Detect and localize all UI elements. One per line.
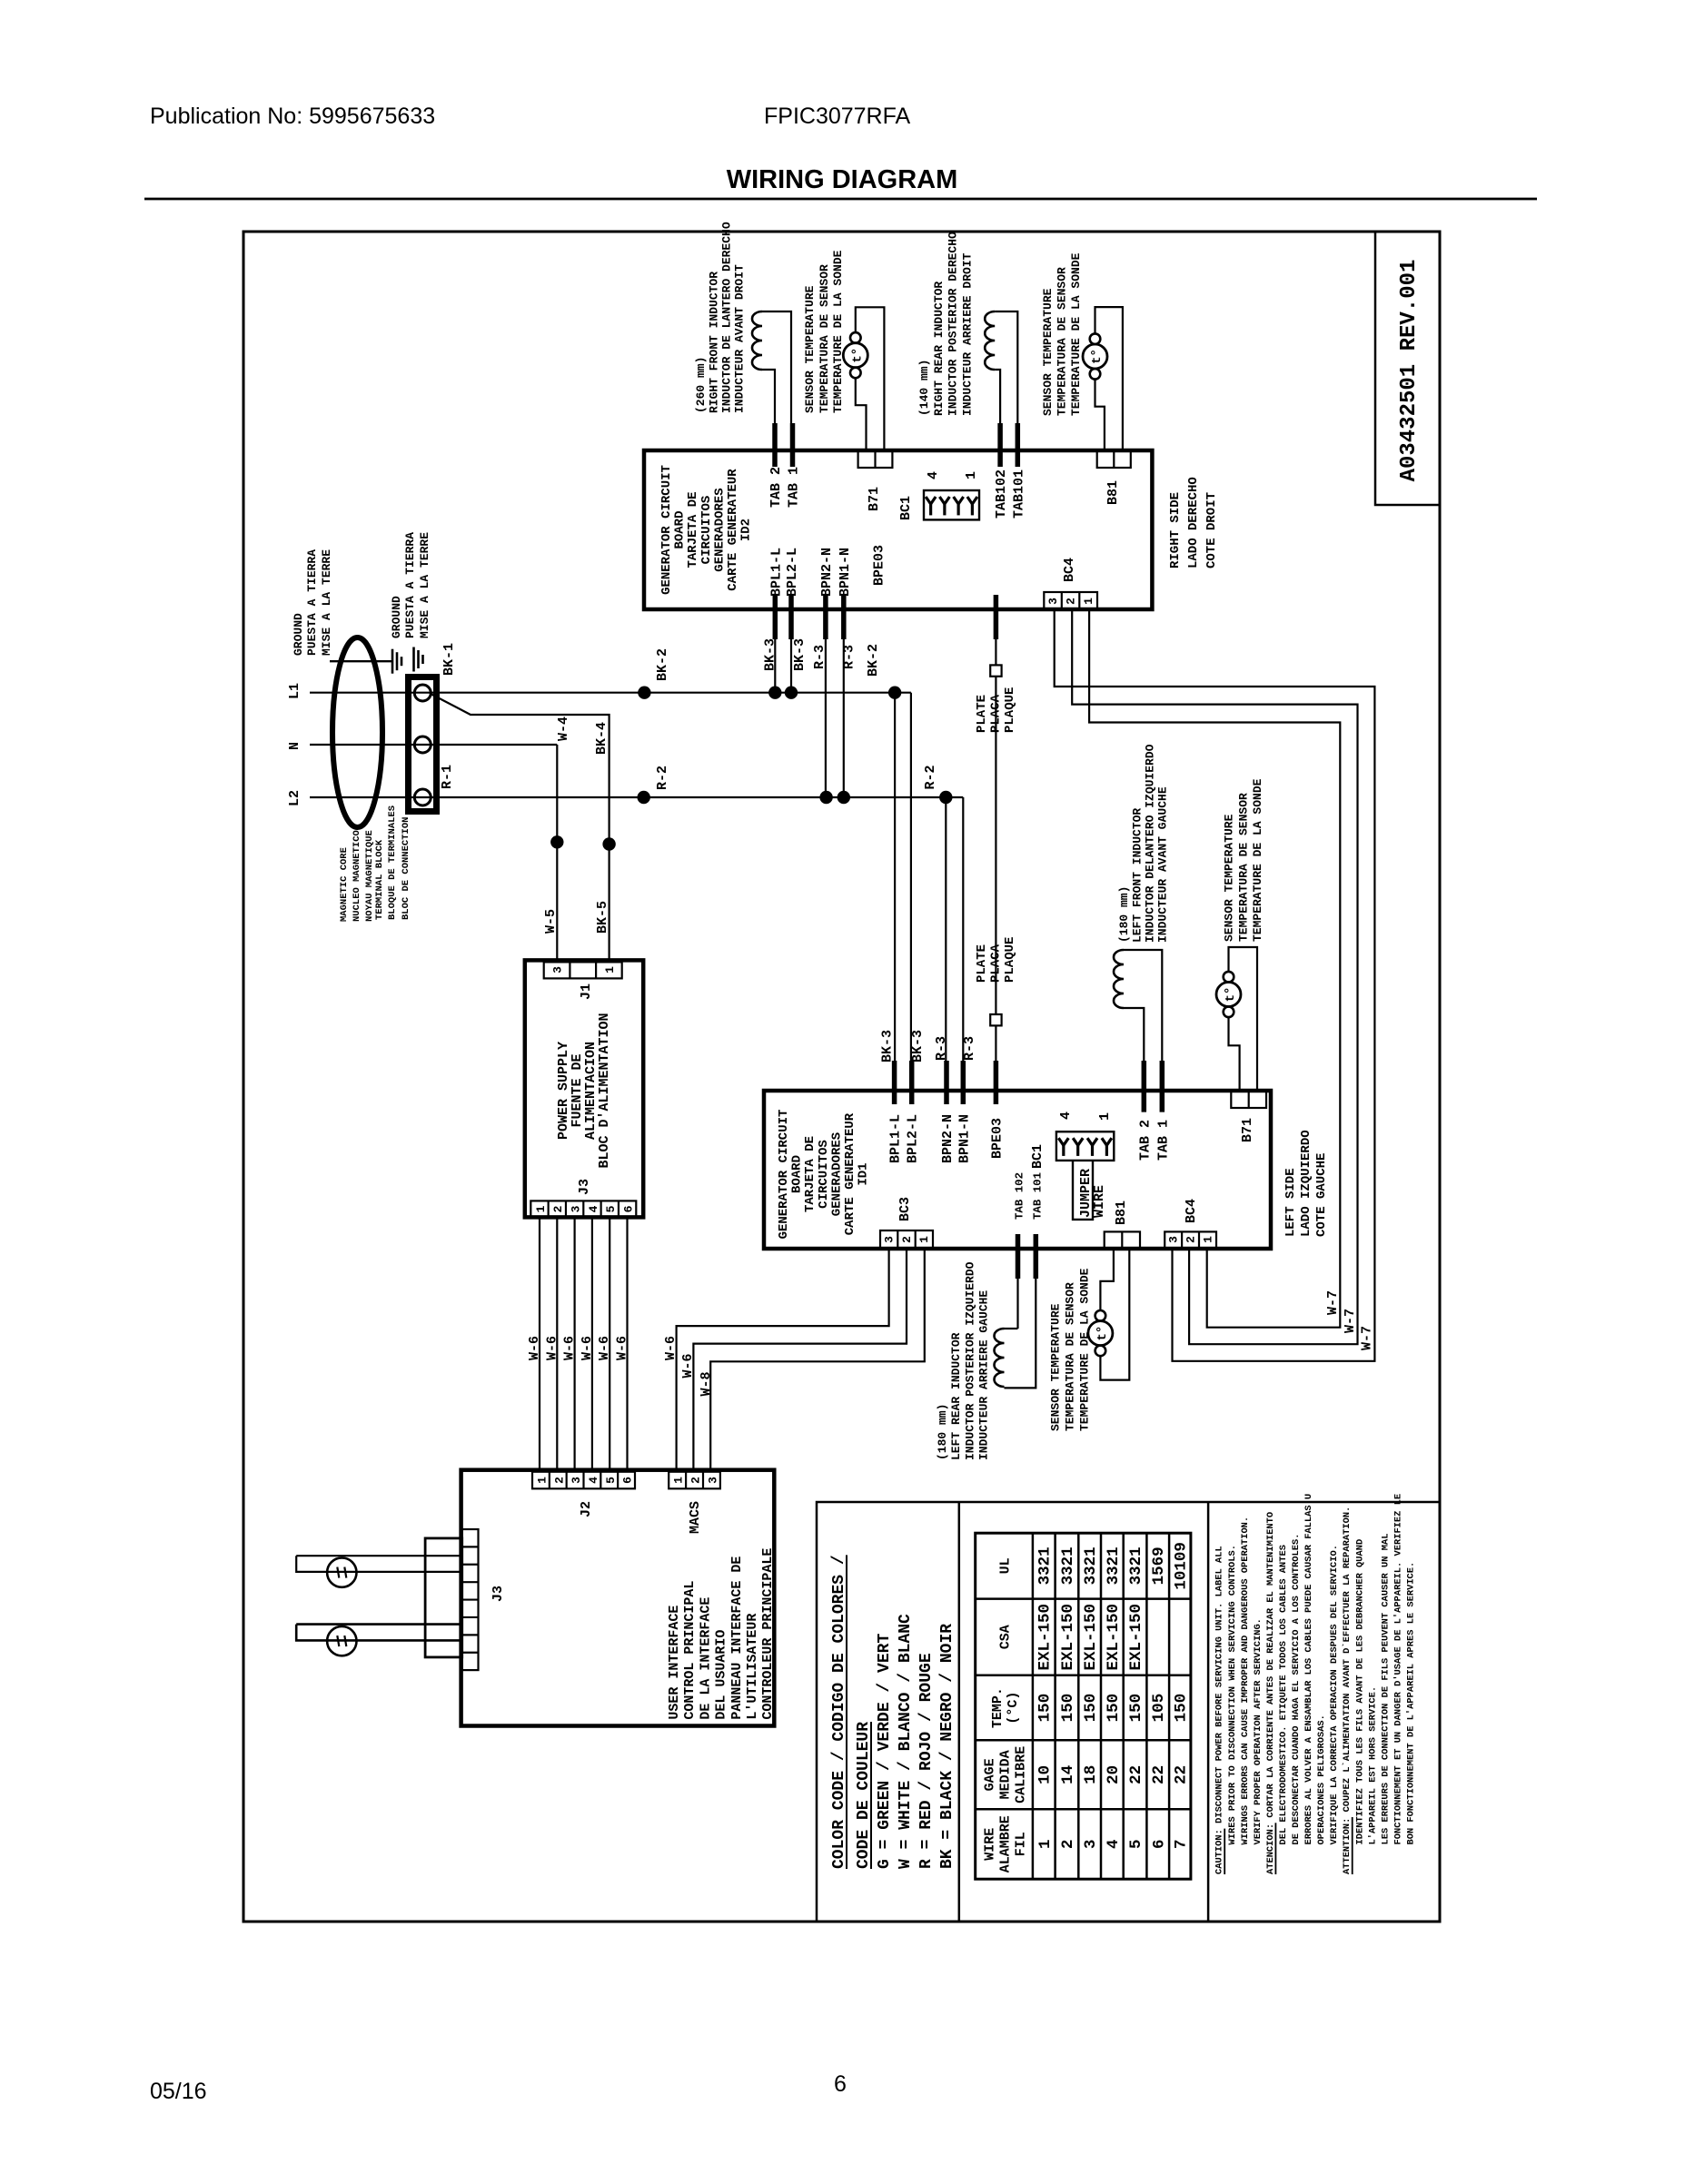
- svg-text:BK-3: BK-3: [762, 638, 778, 671]
- svg-text:INDUCTOR DELANTERO IZQUIERDO: INDUCTOR DELANTERO IZQUIERDO: [1144, 744, 1157, 943]
- svg-text:MACS: MACS: [688, 1501, 703, 1534]
- svg-text:05/16: 05/16: [150, 2079, 207, 2104]
- svg-text:FPIC3077RFA: FPIC3077RFA: [764, 104, 911, 129]
- svg-text:ID2: ID2: [739, 519, 754, 541]
- svg-text:1: 1: [917, 1236, 931, 1243]
- svg-text:3: 3: [1046, 598, 1060, 605]
- svg-text:3321: 3321: [1127, 1547, 1145, 1585]
- svg-text:WIRING DIAGRAM: WIRING DIAGRAM: [727, 165, 958, 194]
- svg-text:BPL1-L: BPL1-L: [888, 1114, 904, 1163]
- svg-text:W-6: W-6: [663, 1336, 679, 1360]
- svg-text:BPN2-N: BPN2-N: [819, 548, 835, 597]
- svg-text:5: 5: [604, 1205, 618, 1212]
- svg-text:3: 3: [569, 1205, 582, 1212]
- svg-text:RIGHT SIDE: RIGHT SIDE: [1168, 492, 1183, 568]
- svg-text:MISE A LA TERRE: MISE A LA TERRE: [418, 532, 431, 638]
- svg-text:4: 4: [587, 1205, 600, 1212]
- svg-text:W-7: W-7: [1325, 1290, 1341, 1315]
- svg-text:W-6: W-6: [580, 1336, 595, 1360]
- svg-text:CONTROLEUR PRINCIPALE: CONTROLEUR PRINCIPALE: [760, 1548, 776, 1720]
- svg-text:TAB 2: TAB 2: [1137, 1120, 1153, 1161]
- svg-text:PLAQUE: PLAQUE: [1003, 687, 1017, 733]
- svg-text:CARTE GENERATEUR: CARTE GENERATEUR: [726, 469, 740, 591]
- svg-text:3: 3: [1167, 1236, 1181, 1243]
- svg-text:6: 6: [834, 2071, 847, 2097]
- svg-text:(180 mm): (180 mm): [936, 1404, 949, 1460]
- svg-text:FONCTIONNEMENT ET UN DANGER D': FONCTIONNEMENT ET UN DANGER D'USAGE DE L…: [1393, 1494, 1403, 1845]
- svg-text:BPN1-N: BPN1-N: [838, 548, 853, 597]
- svg-text:DE LA INTERFACE: DE LA INTERFACE: [698, 1597, 713, 1720]
- svg-text:TERMINAL BLOCK: TERMINAL BLOCK: [374, 839, 385, 920]
- svg-text:BK-4: BK-4: [594, 722, 610, 755]
- svg-text:CIRCUITOS: CIRCUITOS: [817, 1140, 831, 1209]
- svg-text:4: 4: [926, 471, 941, 479]
- svg-text:L2: L2: [287, 790, 302, 806]
- svg-text:BPN2-N: BPN2-N: [940, 1114, 956, 1163]
- svg-text:(180 mm): (180 mm): [1117, 886, 1131, 943]
- svg-text:BK-1: BK-1: [441, 643, 457, 676]
- svg-text:L'UTILISATEUR: L'UTILISATEUR: [745, 1614, 760, 1720]
- svg-text:BON FONCTIONNEMENT DE L'APPARE: BON FONCTIONNEMENT DE L'APPAREIL APRES L…: [1405, 1562, 1416, 1845]
- svg-text:BOARD: BOARD: [790, 1155, 805, 1193]
- svg-text:G = GREEN / VERDE / VERT: G = GREEN / VERDE / VERT: [876, 1634, 894, 1869]
- svg-text:W-6: W-6: [680, 1353, 696, 1378]
- svg-text:3: 3: [551, 966, 565, 973]
- svg-text:VERIFY PROPER OPERATION AFTER: VERIFY PROPER OPERATION AFTER SERVICING.: [1253, 1618, 1264, 1844]
- svg-text:FIL: FIL: [1013, 1832, 1028, 1856]
- svg-text:PLAQUE: PLAQUE: [1003, 937, 1017, 983]
- svg-text:1: 1: [1082, 598, 1095, 605]
- svg-text:105: 105: [1150, 1694, 1168, 1723]
- svg-text:BPL2-L: BPL2-L: [906, 1114, 921, 1163]
- svg-text:22: 22: [1150, 1765, 1168, 1784]
- svg-text:TEMPERATURA DE SENSOR: TEMPERATURA DE SENSOR: [1237, 793, 1251, 942]
- svg-text:R-3: R-3: [842, 645, 857, 669]
- svg-text:BLOQUE DE TERMINALES: BLOQUE DE TERMINALES: [387, 805, 398, 920]
- svg-text:EXL-150: EXL-150: [1082, 1604, 1100, 1671]
- svg-text:150: 150: [1127, 1694, 1145, 1723]
- svg-text:INDUCTEUR AVANT GAUCHE: INDUCTEUR AVANT GAUCHE: [1156, 786, 1170, 943]
- svg-text:3: 3: [883, 1236, 897, 1243]
- svg-text:INDUCTEUR ARRIERE GAUCHE: INDUCTEUR ARRIERE GAUCHE: [977, 1290, 991, 1460]
- svg-text:BK-3: BK-3: [910, 1030, 926, 1062]
- svg-text:20: 20: [1105, 1765, 1123, 1784]
- svg-text:J2: J2: [579, 1501, 594, 1517]
- svg-text:R-2: R-2: [923, 765, 938, 789]
- svg-text:BPL1-L: BPL1-L: [768, 548, 784, 597]
- svg-text:BPN1-N: BPN1-N: [956, 1114, 972, 1163]
- svg-text:BPE03: BPE03: [872, 545, 887, 586]
- svg-text:BK-2: BK-2: [655, 648, 670, 681]
- svg-text:t°: t°: [850, 348, 865, 363]
- svg-text:R-3: R-3: [962, 1036, 977, 1061]
- svg-text:CSA: CSA: [997, 1625, 1013, 1649]
- svg-text:B81: B81: [1114, 1201, 1129, 1225]
- svg-text:ALAMBRE: ALAMBRE: [997, 1815, 1013, 1873]
- svg-text:10: 10: [1036, 1765, 1055, 1784]
- svg-text:ATTENTION: COUPEZ L`ALIMENTATI: ATTENTION: COUPEZ L`ALIMENTATION AVANT D…: [1342, 1507, 1353, 1874]
- svg-text:EXL-150: EXL-150: [1036, 1604, 1055, 1671]
- svg-text:PLACA: PLACA: [989, 694, 1004, 733]
- svg-text:2: 2: [552, 1477, 566, 1484]
- svg-text:TEMP.: TEMP.: [990, 1687, 1006, 1728]
- svg-text:RIGHT REAR INDUCTOR: RIGHT REAR INDUCTOR: [932, 282, 946, 416]
- svg-text:BC4: BC4: [1184, 1199, 1199, 1223]
- svg-text:INDUCTOR POSTERIOR IZQUIERDO: INDUCTOR POSTERIOR IZQUIERDO: [963, 1261, 976, 1460]
- svg-text:22: 22: [1127, 1765, 1145, 1784]
- svg-text:BK-2: BK-2: [866, 644, 881, 677]
- svg-text:1: 1: [1036, 1839, 1055, 1849]
- svg-text:A03432501 REV.001: A03432501 REV.001: [1397, 260, 1422, 482]
- svg-text:W-6: W-6: [527, 1336, 542, 1360]
- svg-text:R-2: R-2: [655, 766, 670, 790]
- svg-text:(140 mm): (140 mm): [917, 360, 931, 416]
- svg-text:PUESTA A TIERRA: PUESTA A TIERRA: [305, 549, 319, 656]
- svg-text:2: 2: [1184, 1236, 1198, 1243]
- svg-text:UL: UL: [997, 1557, 1013, 1574]
- svg-text:W-6: W-6: [544, 1336, 560, 1360]
- svg-text:CONTROL PRINCIPAL: CONTROL PRINCIPAL: [682, 1581, 698, 1720]
- svg-text:t°: t°: [1224, 987, 1238, 1003]
- svg-text:SENSOR TEMPERATURE: SENSOR TEMPERATURE: [1049, 1303, 1063, 1431]
- svg-text:2: 2: [689, 1477, 703, 1484]
- svg-text:WIRE: WIRE: [1092, 1185, 1107, 1218]
- svg-text:6: 6: [621, 1477, 635, 1484]
- svg-text:SENSOR TEMPERATURE: SENSOR TEMPERATURE: [1041, 288, 1055, 416]
- svg-text:TEMPERATURA DE SENSOR: TEMPERATURA DE SENSOR: [1056, 267, 1069, 416]
- svg-text:LEFT REAR INDUCTOR: LEFT REAR INDUCTOR: [949, 1332, 963, 1460]
- svg-text:NUCLEO MAGNETICO: NUCLEO MAGNETICO: [352, 830, 362, 922]
- svg-text:TEMPERATURE DE LA SONDE: TEMPERATURE DE LA SONDE: [1078, 1268, 1092, 1431]
- svg-text:INDUCTOR DE LANTERO DERECHO: INDUCTOR DE LANTERO DERECHO: [719, 222, 733, 413]
- svg-text:18: 18: [1082, 1765, 1100, 1784]
- svg-text:WIRE: WIRE: [982, 1828, 997, 1861]
- svg-text:VERIFIQUE LA CORRECTA OPERACIO: VERIFIQUE LA CORRECTA OPERACION DESPUES …: [1329, 1545, 1340, 1844]
- svg-text:R-3: R-3: [934, 1036, 949, 1061]
- svg-text:TAB 1: TAB 1: [1155, 1120, 1171, 1161]
- svg-text:3321: 3321: [1105, 1547, 1123, 1585]
- svg-text:PUESTA A TIERRA: PUESTA A TIERRA: [403, 532, 417, 638]
- svg-text:L1: L1: [287, 683, 302, 699]
- svg-text:R = RED / ROJO / ROUGE: R = RED / ROJO / ROUGE: [917, 1653, 936, 1869]
- svg-text:CALIBRE: CALIBRE: [1013, 1746, 1028, 1804]
- svg-text:TEMPERATURA DE SENSOR: TEMPERATURA DE SENSOR: [1064, 1282, 1077, 1431]
- svg-text:10109: 10109: [1173, 1542, 1191, 1590]
- svg-text:5: 5: [604, 1477, 618, 1484]
- svg-text:GAGE: GAGE: [982, 1758, 997, 1791]
- svg-text:MEDIDA: MEDIDA: [997, 1750, 1013, 1799]
- svg-text:LES ERREURS DE CONNECTION DE F: LES ERREURS DE CONNECTION DE FILS PEUVEN…: [1380, 1534, 1391, 1845]
- svg-text:CIRCUITOS: CIRCUITOS: [699, 496, 714, 565]
- svg-text:(260 mm): (260 mm): [694, 357, 708, 413]
- svg-text:W-6: W-6: [597, 1336, 612, 1360]
- svg-text:5: 5: [1127, 1839, 1145, 1849]
- svg-text:GENERADORES: GENERADORES: [712, 488, 727, 571]
- svg-text:BK = BLACK / NEGRO / NOIR: BK = BLACK / NEGRO / NOIR: [938, 1624, 956, 1869]
- svg-text:EXL-150: EXL-150: [1105, 1604, 1123, 1671]
- svg-text:SENSOR TEMPERATURE: SENSOR TEMPERATURE: [803, 285, 817, 413]
- svg-text:1: 1: [534, 1205, 548, 1212]
- svg-text:GROUND: GROUND: [390, 596, 403, 638]
- svg-text:1: 1: [1097, 1112, 1113, 1121]
- svg-text:BC1: BC1: [1030, 1144, 1046, 1169]
- svg-text:BPL2-L: BPL2-L: [785, 548, 800, 597]
- svg-text:ID1: ID1: [857, 1162, 871, 1185]
- svg-text:B71: B71: [867, 487, 882, 511]
- svg-text:6: 6: [1150, 1839, 1168, 1849]
- svg-text:INDUCTEUR ARRIERE DROIT: INDUCTEUR ARRIERE DROIT: [960, 252, 974, 416]
- svg-text:BLOC DE CONNECTION: BLOC DE CONNECTION: [401, 817, 411, 920]
- svg-text:Publication No: 5995675633: Publication No: 5995675633: [150, 104, 435, 129]
- svg-text:R-3: R-3: [812, 645, 828, 669]
- svg-text:150: 150: [1082, 1694, 1100, 1723]
- svg-text:USER INTERFACE: USER INTERFACE: [667, 1606, 682, 1720]
- svg-text:TEMPERATURA DE SENSOR: TEMPERATURA DE SENSOR: [818, 264, 831, 413]
- svg-text:t°: t°: [1090, 349, 1105, 364]
- svg-text:2: 2: [551, 1205, 565, 1212]
- svg-text:BK-3: BK-3: [792, 638, 808, 671]
- svg-text:1: 1: [1202, 1236, 1215, 1243]
- svg-text:TARJETA DE: TARJETA DE: [686, 491, 700, 568]
- svg-text:TAB102: TAB102: [994, 469, 1009, 519]
- svg-text:7: 7: [1173, 1839, 1191, 1849]
- svg-text:LEFT SIDE: LEFT SIDE: [1284, 1168, 1298, 1237]
- svg-text:EXL-150: EXL-150: [1127, 1604, 1145, 1671]
- svg-text:LADO IZQUIERDO: LADO IZQUIERDO: [1299, 1130, 1313, 1237]
- svg-text:W-8: W-8: [699, 1371, 714, 1396]
- svg-text:22: 22: [1173, 1765, 1191, 1784]
- svg-text:TEMPERATURE DE LA SONDE: TEMPERATURE DE LA SONDE: [831, 250, 845, 413]
- svg-text:3: 3: [570, 1477, 583, 1484]
- svg-text:GROUND: GROUND: [292, 613, 305, 656]
- svg-text:W-6: W-6: [562, 1336, 578, 1360]
- svg-text:B71: B71: [1240, 1118, 1255, 1142]
- svg-text:TAB 1: TAB 1: [787, 467, 802, 508]
- svg-text:BK-5: BK-5: [595, 901, 610, 934]
- svg-text:L'APPAREIL EST HORS SERVICE.: L'APPAREIL EST HORS SERVICE.: [1367, 1686, 1378, 1845]
- svg-text:W-7: W-7: [1360, 1326, 1375, 1350]
- svg-text:W = WHITE / BLANCO / BLANC: W = WHITE / BLANCO / BLANC: [897, 1614, 915, 1869]
- svg-text:ATENCION: CORTAR LA CORRIENTE: ATENCION: CORTAR LA CORRIENTE ANTES DE R…: [1265, 1512, 1276, 1874]
- svg-text:BC1: BC1: [898, 496, 914, 520]
- svg-text:W-7: W-7: [1343, 1309, 1358, 1333]
- svg-text:PLATE: PLATE: [975, 944, 989, 983]
- svg-text:3: 3: [1082, 1839, 1100, 1849]
- svg-text:4: 4: [1058, 1112, 1074, 1120]
- svg-text:BC3: BC3: [897, 1197, 913, 1221]
- svg-text:J3: J3: [577, 1179, 592, 1195]
- svg-text:4: 4: [587, 1477, 600, 1484]
- svg-text:GENERATOR CIRCUIT: GENERATOR CIRCUIT: [777, 1110, 791, 1240]
- svg-text:BC4: BC4: [1062, 558, 1077, 582]
- svg-text:MAGNETIC CORE: MAGNETIC CORE: [339, 847, 350, 922]
- svg-text:TAB 101: TAB 101: [1031, 1172, 1044, 1220]
- svg-text:3: 3: [706, 1477, 719, 1484]
- svg-text:2: 2: [900, 1236, 914, 1243]
- svg-text:1569: 1569: [1150, 1547, 1168, 1585]
- svg-text:(°C): (°C): [1006, 1692, 1021, 1724]
- svg-text:1: 1: [964, 471, 979, 479]
- svg-text:J1: J1: [579, 983, 594, 1000]
- svg-text:CAUTION: DISCONNECT POWER BEFO: CAUTION: DISCONNECT POWER BEFORE SERVICI…: [1214, 1546, 1225, 1874]
- svg-text:MISE A LA TERRE: MISE A LA TERRE: [320, 549, 333, 656]
- svg-text:150: 150: [1105, 1694, 1123, 1723]
- svg-text:OPERACIONES PELIGROSAS.: OPERACIONES PELIGROSAS.: [1316, 1715, 1327, 1844]
- svg-text:14: 14: [1059, 1765, 1077, 1784]
- svg-text:150: 150: [1059, 1694, 1077, 1723]
- svg-text:B81: B81: [1105, 480, 1121, 505]
- svg-text:BLOC D'ALIMENTATION: BLOC D'ALIMENTATION: [597, 1013, 612, 1168]
- svg-text:DE DESCONECTAR CUANDO HAGA EL: DE DESCONECTAR CUANDO HAGA EL SERVICIO A…: [1291, 1534, 1302, 1845]
- svg-text:LADO DERECHO: LADO DERECHO: [1186, 477, 1201, 568]
- svg-text:BK-3: BK-3: [880, 1030, 896, 1062]
- svg-text:SENSOR TEMPERATURE: SENSOR TEMPERATURE: [1223, 814, 1236, 942]
- svg-text:TAB 2: TAB 2: [768, 467, 784, 508]
- svg-text:IDENTIFIEZ TOUS LES FILS AVANT: IDENTIFIEZ TOUS LES FILS AVANT DE LES DE…: [1354, 1539, 1365, 1845]
- svg-text:N: N: [287, 742, 302, 750]
- svg-text:TEMPERATURE DE LA SONDE: TEMPERATURE DE LA SONDE: [1069, 252, 1083, 416]
- svg-text:6: 6: [621, 1205, 635, 1212]
- svg-text:150: 150: [1173, 1694, 1191, 1723]
- svg-text:TARJETA DE: TARJETA DE: [803, 1136, 818, 1212]
- svg-text:1: 1: [672, 1477, 686, 1484]
- svg-text:4: 4: [1105, 1839, 1123, 1849]
- svg-text:LEFT FRONT INDUCTOR: LEFT FRONT INDUCTOR: [1130, 808, 1144, 943]
- svg-text:DEL USUARIO: DEL USUARIO: [714, 1630, 729, 1720]
- svg-text:BPE03: BPE03: [989, 1118, 1005, 1159]
- svg-text:t°: t°: [1095, 1326, 1110, 1341]
- svg-text:W-6: W-6: [615, 1336, 630, 1360]
- svg-text:TAB101: TAB101: [1011, 469, 1026, 519]
- svg-text:1: 1: [536, 1477, 550, 1484]
- svg-text:3321: 3321: [1036, 1547, 1055, 1585]
- svg-text:R-1: R-1: [440, 765, 455, 789]
- svg-text:COTE GAUCHE: COTE GAUCHE: [1314, 1153, 1329, 1237]
- svg-text:PLATE: PLATE: [975, 695, 989, 733]
- svg-text:PANNEAU INTERFACE DE: PANNEAU INTERFACE DE: [729, 1556, 745, 1720]
- svg-text:150: 150: [1036, 1694, 1055, 1723]
- svg-text:2: 2: [1059, 1839, 1077, 1849]
- svg-text:W-4: W-4: [556, 716, 571, 741]
- svg-text:INDUCTEUR AVANT DROIT: INDUCTEUR AVANT DROIT: [733, 264, 747, 413]
- svg-text:GENERATOR CIRCUIT: GENERATOR CIRCUIT: [659, 465, 674, 595]
- svg-text:CARTE GENERATEUR: CARTE GENERATEUR: [843, 1112, 857, 1235]
- svg-text:WIRINGS ERRORS CAN CAUSE IMPRO: WIRINGS ERRORS CAN CAUSE IMPROPER AND DA…: [1240, 1517, 1251, 1845]
- svg-text:WIRES PRIOR TO DISCONNECTION W: WIRES PRIOR TO DISCONNECTION WHEN SERVIC…: [1227, 1545, 1238, 1844]
- svg-text:EXL-150: EXL-150: [1059, 1604, 1077, 1671]
- svg-text:RIGHT FRONT INDUCTOR: RIGHT FRONT INDUCTOR: [707, 272, 720, 413]
- svg-text:3321: 3321: [1082, 1547, 1100, 1585]
- svg-text:W-5: W-5: [543, 909, 559, 934]
- svg-text:3321: 3321: [1059, 1547, 1077, 1585]
- svg-text:TAB 102: TAB 102: [1014, 1172, 1026, 1220]
- svg-text:1: 1: [603, 966, 617, 973]
- svg-text:J3: J3: [491, 1586, 506, 1602]
- svg-text:INDUCTOR POSTERIOR DERECHO: INDUCTOR POSTERIOR DERECHO: [947, 232, 960, 416]
- svg-text:DEL ELECTRODOMESTICO. ETIQUETE: DEL ELECTRODOMESTICO. ETIQUETE TODOS LOS…: [1278, 1545, 1289, 1844]
- svg-text:COTE DROIT: COTE DROIT: [1204, 492, 1219, 568]
- svg-text:TEMPERATURE DE LA SONDE: TEMPERATURE DE LA SONDE: [1251, 778, 1264, 942]
- svg-text:BOARD: BOARD: [673, 510, 688, 548]
- svg-text:GENERADORES: GENERADORES: [829, 1132, 844, 1216]
- svg-text:2: 2: [1065, 598, 1078, 605]
- svg-text:ERRORES AL VOLVER A ENSAMBLAR: ERRORES AL VOLVER A ENSAMBLAR LOS CABLES…: [1303, 1494, 1314, 1845]
- svg-text:PLACA: PLACA: [989, 944, 1004, 983]
